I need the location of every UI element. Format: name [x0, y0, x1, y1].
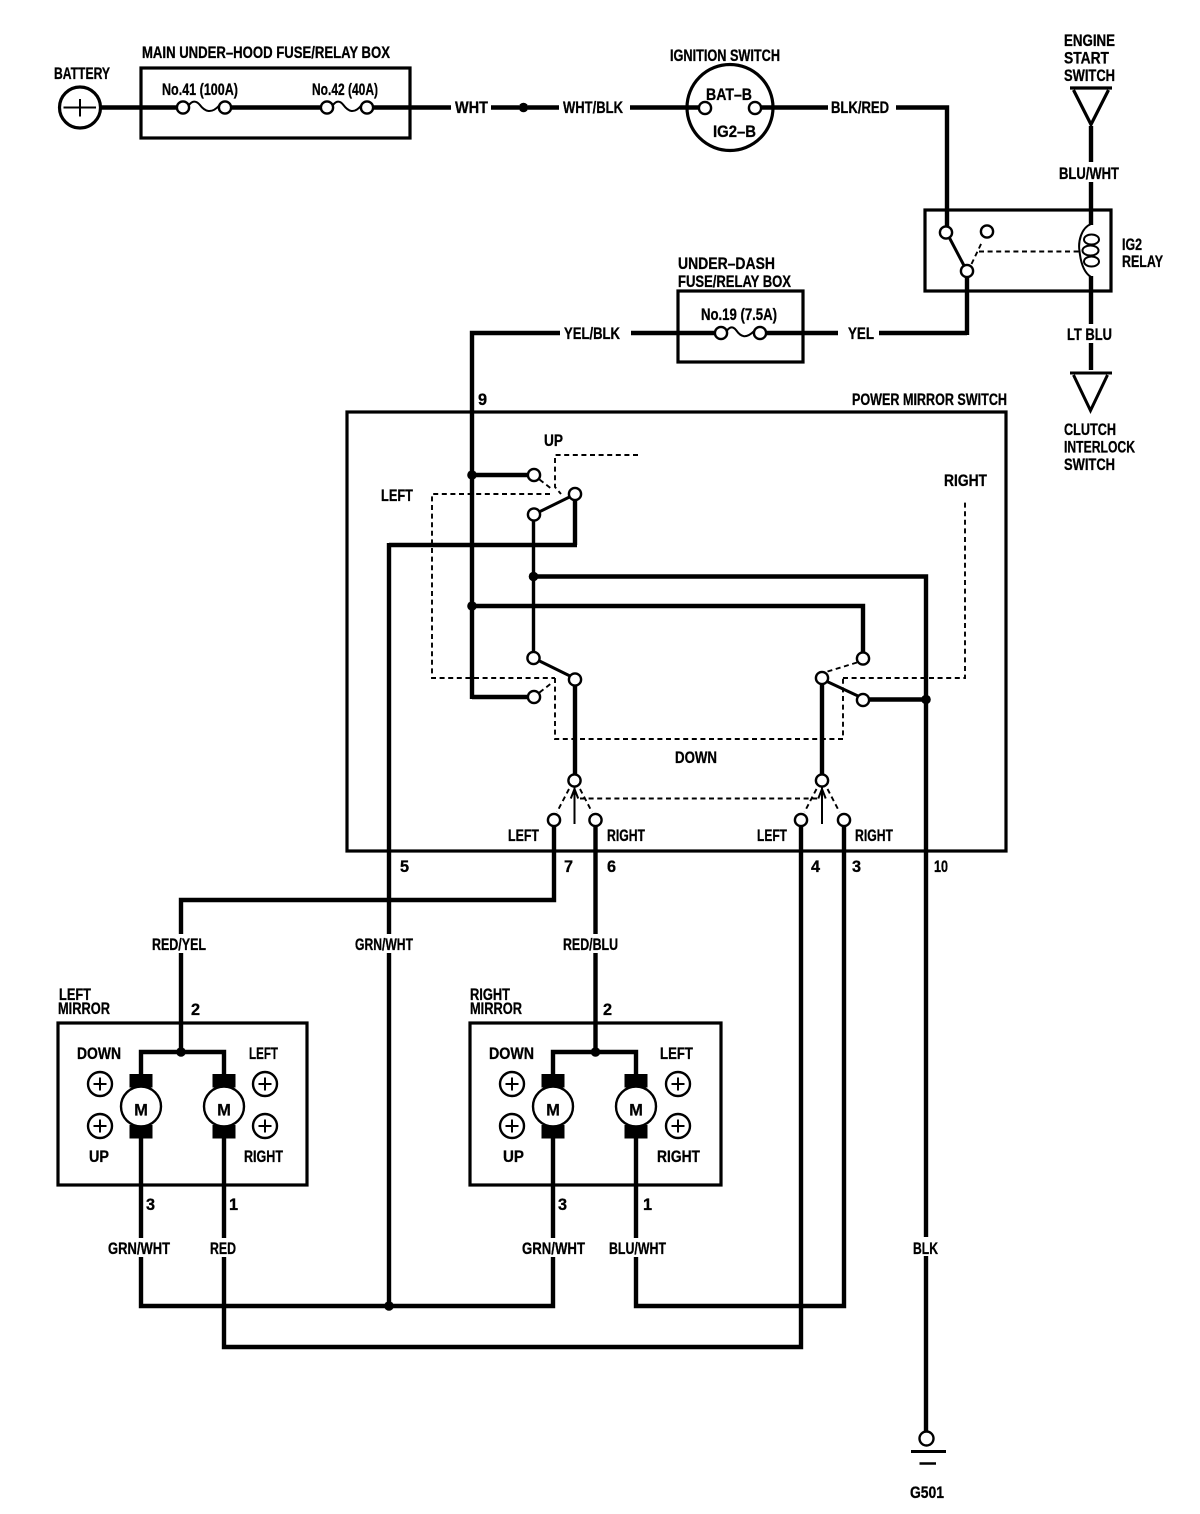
svg-text:UP: UP — [503, 1148, 524, 1166]
dashed blade alt position (down) — [540, 682, 554, 693]
left switch blade lower — [539, 661, 571, 677]
svg-text:GRN/WHT: GRN/WHT — [108, 1240, 170, 1258]
svg-text:M: M — [546, 1102, 560, 1120]
svg-text:6: 6 — [607, 858, 616, 876]
BLU/WHT bus (bus B) — [636, 825, 844, 1306]
left mirror up/down motor M — [121, 1074, 161, 1139]
svg-text:M: M — [217, 1102, 231, 1120]
left-up contact — [528, 469, 540, 481]
svg-text:M: M — [134, 1102, 148, 1120]
left switch blade upper — [540, 497, 570, 512]
wire YEL (relay to fuse box) — [879, 331, 967, 335]
svg-text:BLK/RED: BLK/RED — [831, 99, 889, 117]
svg-text:BLU/WHT: BLU/WHT — [609, 1240, 666, 1258]
left selector arrow — [571, 787, 578, 824]
left mirror left/right motor M — [204, 1074, 244, 1139]
wire between fuses — [231, 105, 322, 109]
left switch pivot upper — [569, 488, 581, 500]
svg-text:RIGHT: RIGHT — [855, 827, 893, 845]
DOWN dashed rail — [555, 678, 843, 739]
junction dot bus10 — [921, 695, 931, 705]
wire WHT/BLK to ignition switch — [630, 105, 699, 109]
svg-text:UNDER–DASH: UNDER–DASH — [678, 255, 775, 273]
svg-text:IG2: IG2 — [1122, 236, 1142, 254]
svg-text:WHT: WHT — [455, 99, 488, 117]
svg-text:UP: UP — [89, 1148, 109, 1166]
svg-text:2: 2 — [191, 1001, 200, 1019]
svg-text:DOWN: DOWN — [77, 1045, 121, 1063]
wire LT BLU to clutch interlock switch — [1089, 343, 1093, 370]
wire battery to fuse box — [101, 105, 179, 109]
pin 6 wire lower — [593, 953, 597, 1052]
left common wire down — [532, 520, 535, 652]
left selector knob — [568, 774, 580, 786]
svg-text:DOWN: DOWN — [675, 749, 717, 767]
under-dash fuse/relay box — [678, 255, 803, 362]
svg-text:BLK: BLK — [913, 1240, 938, 1258]
svg-text:RED/BLU: RED/BLU — [563, 936, 618, 954]
svg-text:POWER MIRROR SWITCH: POWER MIRROR SWITCH — [852, 391, 1007, 409]
right switch blade — [827, 682, 858, 697]
wire YEL/BLK corner down into switch (node 9 bus) — [472, 333, 560, 699]
wire bus to left-up contact — [472, 473, 528, 477]
svg-text:4: 4 — [811, 858, 820, 876]
relay actuator dashed — [972, 242, 1080, 264]
svg-text:RIGHT: RIGHT — [657, 1148, 700, 1166]
svg-text:LEFT: LEFT — [660, 1045, 693, 1063]
svg-text:RIGHT: RIGHT — [944, 472, 987, 490]
main under-hood fuse/relay box — [141, 44, 410, 138]
pin 6 contact — [589, 814, 601, 826]
wire coil to LT BLU — [1089, 276, 1093, 324]
RED bus (bus C) — [224, 825, 801, 1347]
pin 7 contact — [548, 814, 560, 826]
svg-text:GRN/WHT: GRN/WHT — [522, 1240, 585, 1258]
junction dot left bridge — [176, 1047, 186, 1057]
svg-text:SWITCH: SWITCH — [1064, 67, 1115, 85]
svg-text:IG2–B: IG2–B — [713, 123, 756, 141]
svg-text:YEL: YEL — [848, 325, 874, 343]
svg-text:No.19 (7.5A): No.19 (7.5A) — [701, 306, 777, 324]
left mirror labels — [77, 1045, 283, 1166]
right switch dashed alt — [828, 663, 858, 672]
node 9 junction dot upper — [467, 470, 477, 480]
right mirror direction screws — [500, 1072, 690, 1138]
battery — [54, 65, 110, 128]
pin 3 contact — [838, 814, 850, 826]
right mirror bridge wire — [553, 1052, 636, 1076]
wire row1 (pivot to pin 5) — [389, 543, 577, 547]
svg-text:MIRROR: MIRROR — [470, 1000, 522, 1018]
relay terminal NO — [981, 225, 993, 237]
wire YEL to under-dash box — [803, 331, 838, 335]
pin 7 wire to left mirror — [181, 825, 554, 934]
wire bus to left-down contact — [472, 695, 528, 699]
pin 7 wire lower — [179, 953, 183, 1052]
left mirror direction screws — [88, 1072, 277, 1138]
pin 5 wire upper — [387, 543, 391, 934]
IG2 relay box — [925, 210, 1111, 291]
svg-text:MAIN UNDER–HOOD FUSE/RELAY BOX: MAIN UNDER–HOOD FUSE/RELAY BOX — [142, 44, 390, 62]
right mirror box — [470, 986, 721, 1185]
svg-text:M: M — [629, 1102, 643, 1120]
svg-text:1: 1 — [229, 1196, 238, 1214]
svg-text:No.42 (40A): No.42 (40A) — [312, 81, 378, 99]
right mirror labels — [489, 1045, 700, 1166]
right mirror pin 1 wire — [634, 1139, 638, 1239]
wire row3 (node 9 to right switch) — [472, 606, 863, 652]
selector gang dashed link — [580, 798, 818, 800]
IG2 relay label — [1122, 236, 1163, 271]
GRN/WHT bus (bus A) — [141, 1257, 553, 1306]
svg-text:No.41 (100A): No.41 (100A) — [162, 81, 238, 99]
right selector knob — [816, 774, 828, 786]
svg-text:YEL/BLK: YEL/BLK — [564, 325, 620, 343]
left mirror box — [58, 986, 307, 1185]
wire fuse box to WHT — [373, 105, 452, 109]
pin 6 wire upper — [593, 825, 597, 934]
wire WHT to junction — [491, 105, 519, 109]
power mirror switch box — [347, 391, 1007, 851]
wire start switch to BLU/WHT — [1089, 126, 1093, 162]
left lower contact — [527, 652, 539, 664]
fuse No.42 (40A) — [312, 81, 378, 114]
left mirror pin 1 wire — [222, 1139, 226, 1239]
wire under-dash box to YEL/BLK — [631, 331, 678, 335]
left selector dashed throws — [557, 789, 592, 812]
pivot stem right — [820, 684, 824, 777]
svg-text:7: 7 — [564, 858, 573, 876]
svg-text:9: 9 — [478, 391, 487, 409]
svg-text:UP: UP — [544, 432, 563, 450]
svg-text:1: 1 — [643, 1196, 652, 1214]
pin number labels — [400, 858, 948, 876]
svg-text:IGNITION SWITCH: IGNITION SWITCH — [670, 47, 780, 65]
left-down contact — [528, 691, 540, 703]
clutch interlock switch — [1064, 373, 1135, 474]
svg-text:LEFT: LEFT — [757, 827, 787, 845]
pivot stem lower left — [573, 685, 577, 776]
left mirror pin 3 wire — [139, 1139, 143, 1239]
svg-text:WHT/BLK: WHT/BLK — [563, 99, 623, 117]
pin 4 contact — [795, 814, 807, 826]
fuse No.19 (7.5A) — [678, 306, 803, 339]
junction dot row2 — [529, 572, 539, 582]
svg-text:LT BLU: LT BLU — [1067, 326, 1112, 344]
LEFT dashed rail — [432, 494, 555, 678]
svg-text:10: 10 — [934, 858, 948, 876]
wire ignition to BLK/RED — [761, 105, 828, 109]
left mirror bridge wire — [141, 1052, 224, 1076]
left mirror pin labels — [146, 1196, 238, 1214]
pivot stem upper left — [573, 499, 577, 545]
svg-text:START: START — [1064, 50, 1109, 68]
svg-text:RIGHT: RIGHT — [607, 827, 645, 845]
right lower contact — [857, 694, 869, 706]
right upper contact — [857, 652, 869, 664]
pin 10 wire lower (BLK to ground) — [924, 1256, 928, 1431]
svg-text:RED: RED — [210, 1240, 236, 1258]
svg-text:LEFT: LEFT — [381, 487, 413, 505]
svg-text:3: 3 — [146, 1196, 155, 1214]
right selector dashed throws — [805, 789, 840, 812]
svg-text:3: 3 — [558, 1196, 567, 1214]
svg-text:GRN/WHT: GRN/WHT — [355, 936, 413, 954]
svg-text:2: 2 — [603, 1001, 612, 1019]
terminal BAT-B — [699, 102, 711, 114]
svg-text:FUSE/RELAY BOX: FUSE/RELAY BOX — [678, 273, 791, 291]
dashed blade alt position (up) — [540, 480, 554, 491]
right mirror up/down motor M — [533, 1074, 573, 1139]
RIGHT dashed rail — [843, 499, 965, 678]
svg-text:MIRROR: MIRROR — [58, 1000, 110, 1018]
right mirror pin labels — [558, 1196, 652, 1214]
terminal IG2-B — [749, 102, 761, 114]
ground G501 — [910, 1432, 946, 1503]
wire relay pivot down to YEL — [965, 276, 969, 335]
fuse No.41 (100A) — [162, 81, 238, 114]
svg-text:DOWN: DOWN — [489, 1045, 534, 1063]
engine start switch — [1064, 32, 1115, 125]
wire row2 (to right bus pin 10) — [534, 577, 927, 1238]
svg-text:G501: G501 — [910, 1484, 944, 1502]
ignition switch — [670, 47, 780, 151]
relay pivot — [961, 265, 973, 277]
wire right contact to bus10 — [869, 697, 926, 701]
svg-text:SWITCH: SWITCH — [1064, 456, 1115, 474]
relay terminal from BLK/RED — [940, 226, 952, 238]
relay coil — [1079, 212, 1099, 277]
svg-text:LEFT: LEFT — [508, 827, 539, 845]
junction dot bus A — [384, 1301, 394, 1311]
svg-text:5: 5 — [400, 858, 409, 876]
right mirror pin 3 wire — [551, 1139, 555, 1239]
svg-text:3: 3 — [852, 858, 861, 876]
svg-text:BAT–B: BAT–B — [706, 86, 752, 104]
wire junction to WHT/BLK — [528, 105, 559, 109]
node 9 junction dot lower — [467, 601, 477, 611]
svg-text:BATTERY: BATTERY — [54, 65, 110, 83]
left switch pivot lower — [569, 673, 581, 685]
right mirror left/right motor M — [616, 1074, 656, 1139]
relay blade — [949, 237, 965, 267]
svg-text:RED/YEL: RED/YEL — [152, 936, 206, 954]
junction dot right bridge — [591, 1047, 601, 1057]
wire BLU/WHT to relay — [1089, 182, 1093, 212]
svg-text:ENGINE: ENGINE — [1064, 32, 1115, 50]
svg-text:LEFT: LEFT — [249, 1045, 278, 1063]
svg-text:CLUTCH: CLUTCH — [1064, 421, 1116, 439]
junction dot WHT/BLK — [519, 103, 529, 113]
pin 5 wire lower — [387, 953, 391, 1306]
wire BLK/RED to relay (corner down) — [896, 108, 947, 228]
svg-text:RELAY: RELAY — [1122, 253, 1163, 271]
svg-text:BLU/WHT: BLU/WHT — [1059, 165, 1119, 183]
svg-text:INTERLOCK: INTERLOCK — [1064, 439, 1135, 457]
right switch pivot — [816, 672, 828, 684]
svg-text:RIGHT: RIGHT — [244, 1148, 283, 1166]
UP dashed rail — [555, 455, 638, 494]
left switch common contact upper — [528, 508, 540, 520]
right selector arrow — [818, 787, 825, 824]
